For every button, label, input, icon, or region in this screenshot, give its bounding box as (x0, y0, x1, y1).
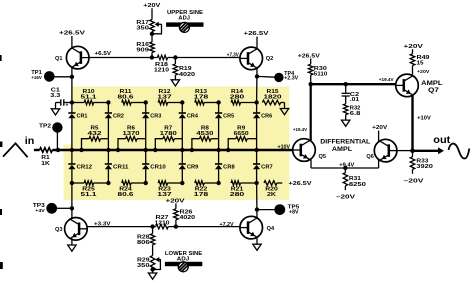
svg-text:+: + (66, 103, 69, 109)
svg-text:+20V: +20V (166, 198, 185, 204)
svg-text:51.1: 51.1 (81, 192, 97, 198)
svg-text:CR10: CR10 (150, 164, 166, 170)
svg-text:80.6: 80.6 (118, 94, 134, 100)
svg-text:1370: 1370 (123, 131, 140, 137)
svg-text:+16V: +16V (31, 75, 42, 80)
svg-text:TP2: TP2 (39, 124, 51, 130)
svg-text:1210: 1210 (155, 221, 170, 227)
svg-text:Q1: Q1 (55, 56, 62, 62)
svg-text:+20V: +20V (372, 125, 387, 131)
svg-text:+26.5V: +26.5V (59, 30, 85, 36)
svg-text:8250: 8250 (349, 182, 366, 188)
svg-text:Q5: Q5 (319, 154, 326, 160)
svg-text:137: 137 (157, 192, 172, 198)
svg-text:+8V: +8V (289, 210, 299, 216)
svg-text:Q7: Q7 (428, 87, 440, 94)
svg-text:280: 280 (230, 94, 245, 100)
svg-text:+4V: +4V (35, 208, 45, 213)
svg-text:6.8: 6.8 (350, 111, 361, 117)
svg-text:Q3: Q3 (55, 227, 62, 233)
svg-text:CR7: CR7 (261, 164, 273, 170)
svg-text:350: 350 (136, 26, 149, 32)
svg-text:+6.5V: +6.5V (95, 51, 112, 57)
svg-text:CR11: CR11 (113, 164, 129, 170)
svg-text:in: in (25, 135, 35, 147)
svg-text:AMPL: AMPL (421, 80, 443, 87)
svg-text:+10V: +10V (278, 144, 291, 150)
svg-text:+20V: +20V (404, 44, 424, 50)
svg-text:80.6: 80.6 (118, 192, 134, 198)
svg-text:Q6: Q6 (366, 154, 373, 160)
svg-text:+26.5V: +26.5V (289, 181, 312, 187)
svg-text:806: 806 (137, 240, 150, 246)
svg-text:CR8: CR8 (223, 164, 235, 170)
svg-text:51.1: 51.1 (81, 94, 97, 100)
svg-text:CR1: CR1 (77, 114, 88, 120)
svg-text:Q2: Q2 (266, 56, 273, 62)
svg-text:178: 178 (194, 94, 209, 100)
svg-text:178: 178 (194, 192, 209, 198)
svg-text:+26.5V: +26.5V (244, 31, 269, 37)
svg-text:ADJ: ADJ (178, 16, 190, 22)
svg-text:DIFFERENTIAL: DIFFERENTIAL (320, 138, 370, 145)
svg-text:AMPL: AMPL (332, 146, 352, 153)
svg-text:CR3: CR3 (150, 114, 161, 120)
svg-text:.01: .01 (350, 97, 359, 103)
svg-text:CR2: CR2 (113, 114, 124, 120)
svg-text:+20V: +20V (417, 69, 430, 75)
svg-text:3.3: 3.3 (50, 93, 60, 99)
svg-text:+19.4V: +19.4V (293, 127, 308, 133)
svg-text:out: out (433, 134, 451, 146)
svg-text:1780: 1780 (160, 131, 177, 137)
svg-text:+26.5V: +26.5V (298, 53, 320, 59)
svg-text:4020: 4020 (179, 72, 195, 78)
svg-text:1K: 1K (41, 161, 50, 167)
svg-text:350: 350 (137, 263, 150, 269)
svg-text:6650: 6650 (234, 131, 249, 137)
svg-text:1210: 1210 (154, 68, 169, 74)
svg-text:Q4: Q4 (267, 226, 275, 232)
svg-text:4530: 4530 (196, 131, 213, 137)
svg-text:909: 909 (136, 48, 149, 54)
svg-text:2K: 2K (267, 192, 276, 198)
svg-text:1820: 1820 (264, 94, 282, 100)
svg-text:+9.4V: +9.4V (339, 162, 355, 168)
svg-text:–20V: –20V (404, 178, 424, 184)
svg-text:+2.3V: +2.3V (284, 76, 299, 82)
svg-text:4020: 4020 (180, 215, 196, 221)
svg-text:5110: 5110 (314, 71, 328, 77)
svg-text:–20V: –20V (336, 194, 355, 200)
svg-text:+10V: +10V (417, 116, 431, 122)
svg-text:CR9: CR9 (187, 164, 199, 170)
svg-text:280: 280 (230, 192, 245, 198)
svg-text:CR12: CR12 (77, 164, 93, 170)
svg-text:CR4: CR4 (187, 114, 198, 120)
svg-text:137: 137 (157, 94, 172, 100)
svg-text:+7.3V: +7.3V (227, 53, 239, 59)
svg-text:CR6: CR6 (261, 114, 272, 120)
svg-text:3920: 3920 (416, 164, 433, 170)
svg-text:+19.4V: +19.4V (379, 77, 395, 83)
svg-text:CR5: CR5 (223, 114, 234, 120)
svg-text:432: 432 (88, 131, 102, 137)
svg-text:15: 15 (417, 61, 424, 67)
